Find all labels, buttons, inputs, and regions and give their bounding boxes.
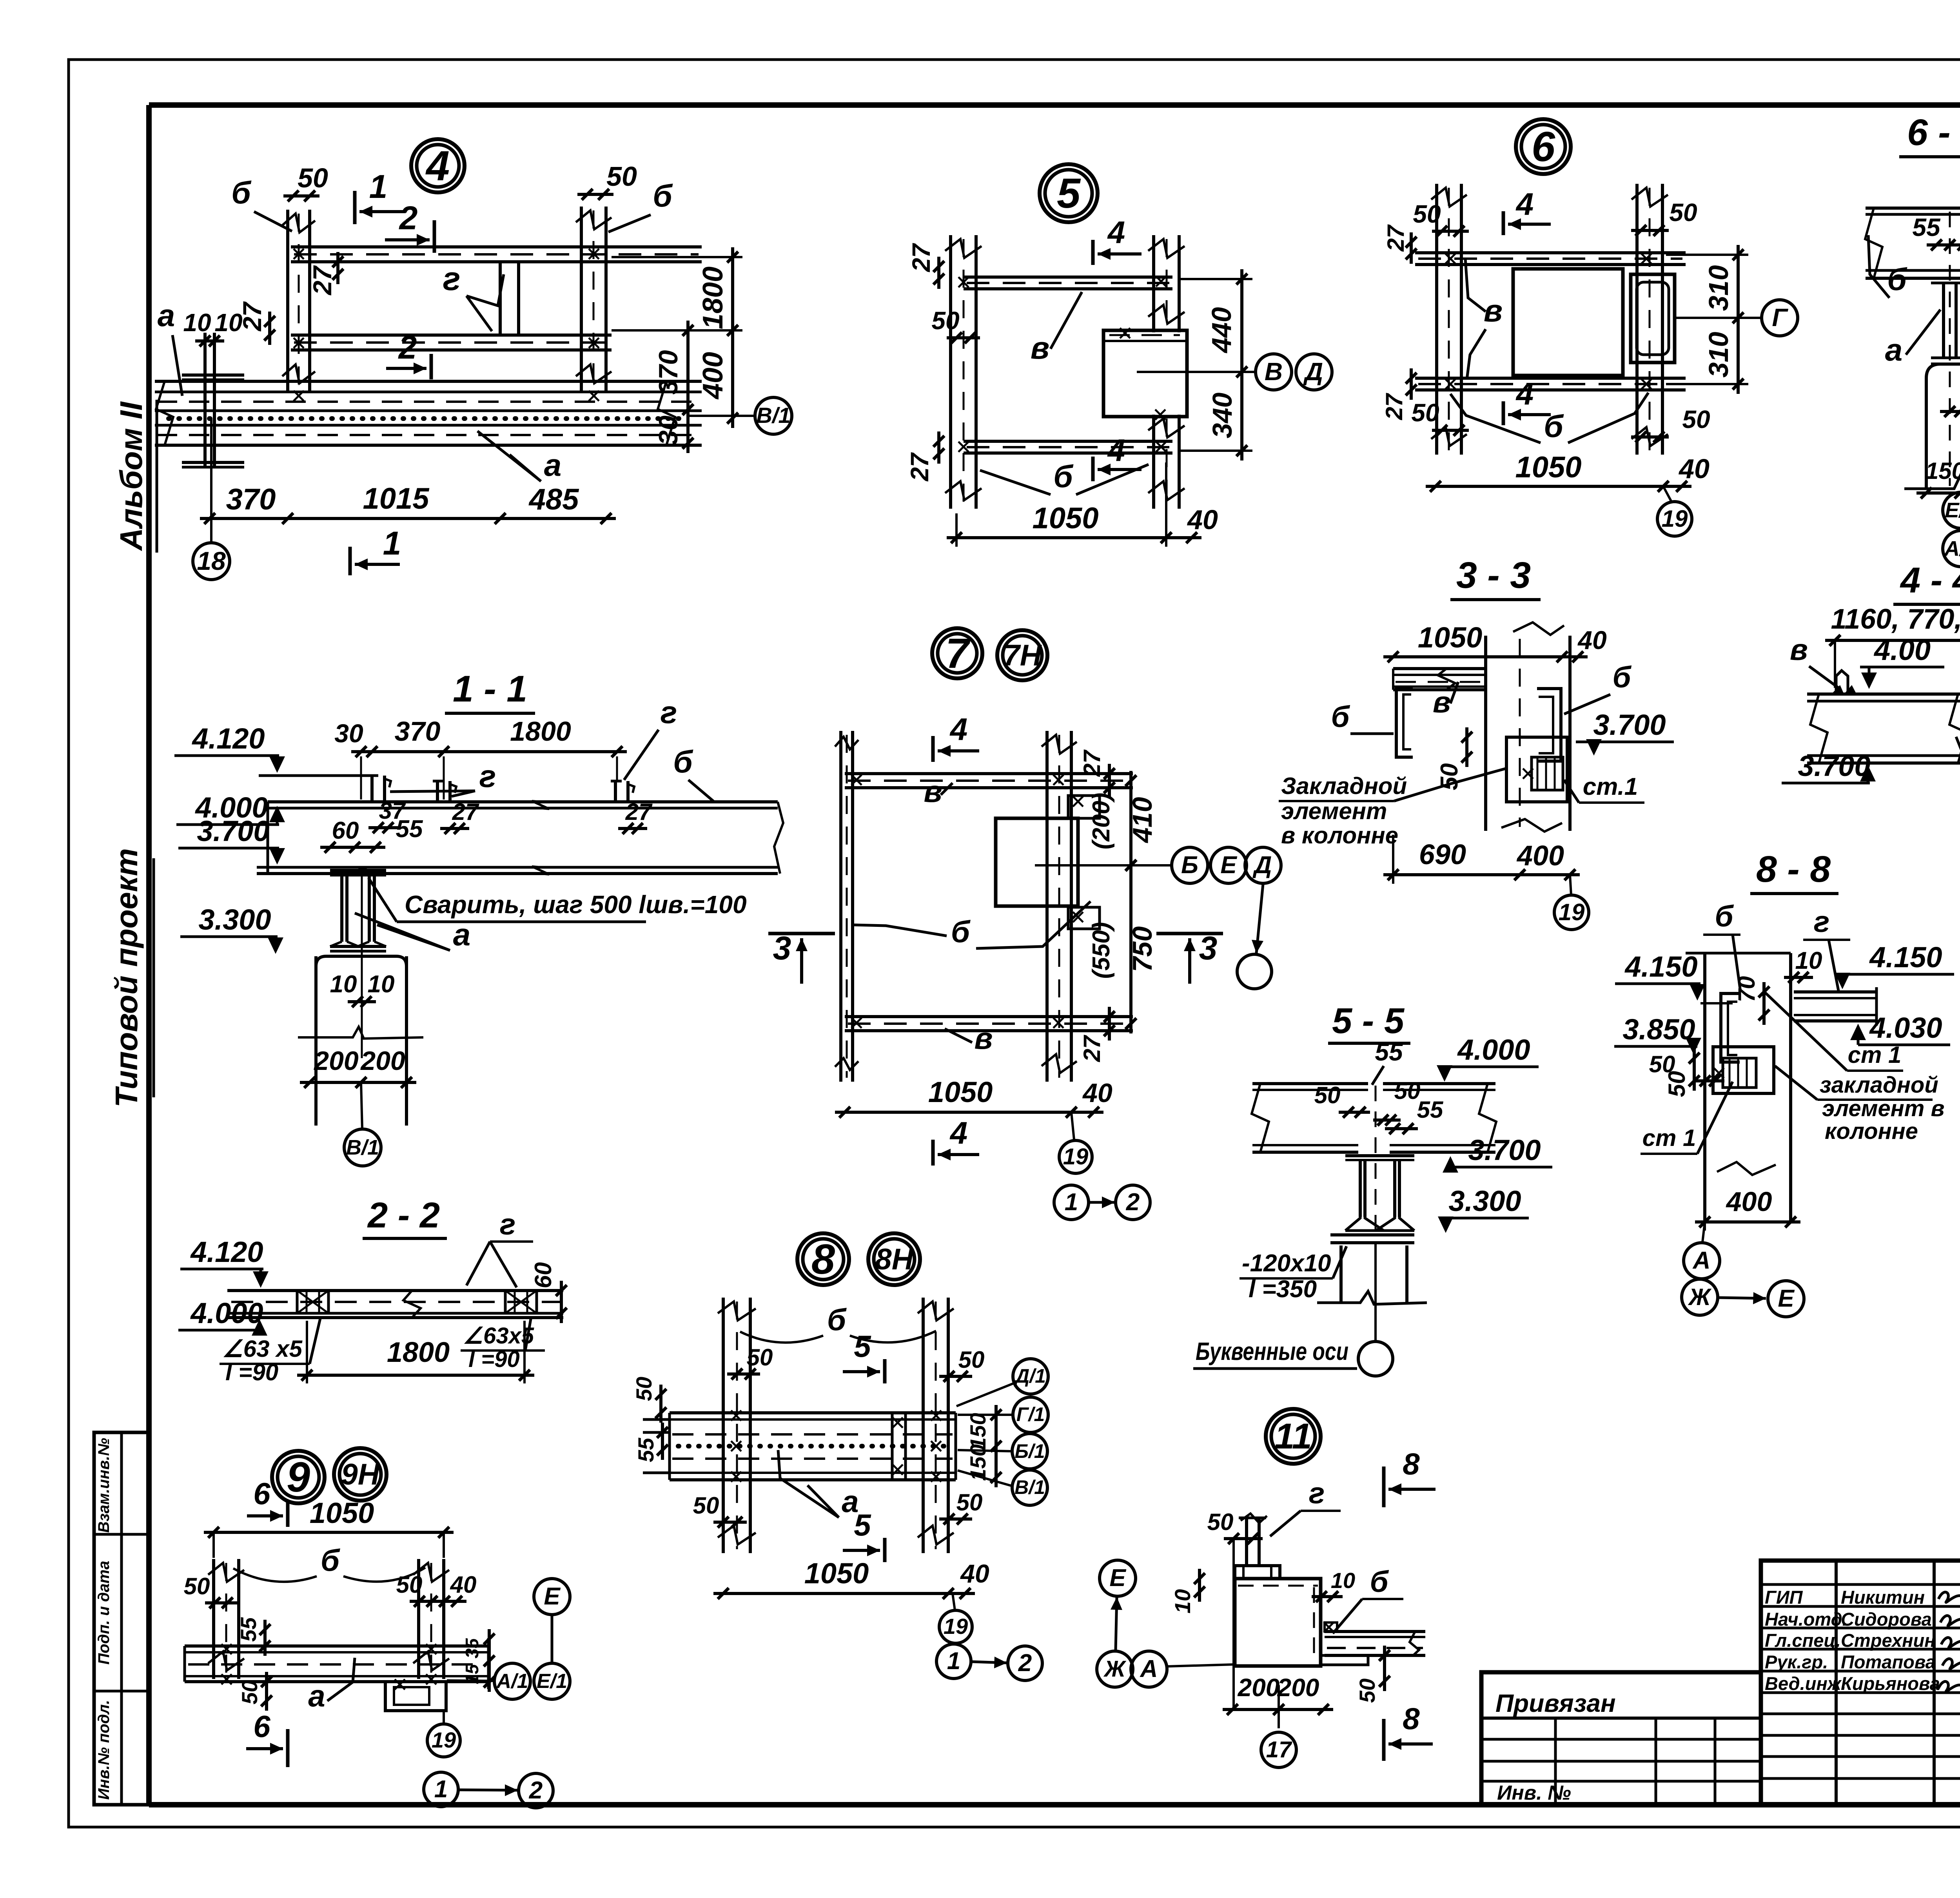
svg-text:27: 27 bbox=[1079, 1035, 1105, 1062]
svg-text:Потапова: Потапова bbox=[1841, 1651, 1936, 1672]
2-2 end rails bbox=[297, 1291, 328, 1313]
node11 section mark 8 top bbox=[1382, 1467, 1386, 1507]
svg-text:Подп. и дата: Подп. и дата bbox=[95, 1561, 113, 1665]
node11 section mark 8 bottom bbox=[1382, 1719, 1386, 1761]
svg-text:Буквенные оси: Буквенные оси bbox=[1196, 1337, 1348, 1365]
svg-text:370: 370 bbox=[226, 483, 276, 516]
node4 section mark 2 bottom bbox=[430, 354, 433, 379]
svg-text:50: 50 bbox=[237, 1680, 262, 1704]
node6 bottom dim 1050 40 bbox=[1426, 485, 1691, 488]
svg-text:4: 4 bbox=[949, 712, 968, 747]
node5 bottom beam bbox=[964, 440, 1172, 443]
svg-text:2 - 2: 2 - 2 bbox=[367, 1195, 440, 1235]
axis circle 1 and 2 node9 bbox=[424, 1772, 458, 1807]
svg-text:Е: Е bbox=[1109, 1564, 1126, 1592]
svg-text:б: б bbox=[231, 175, 252, 210]
svg-text:4.150: 4.150 bbox=[1869, 941, 1942, 973]
5-5 empty axis circle bbox=[1358, 1341, 1393, 1376]
node11 rail bbox=[1245, 1518, 1248, 1566]
svg-text:г: г bbox=[1814, 905, 1830, 939]
axis circle 1 and 2 node7 bbox=[1054, 1185, 1089, 1220]
svg-text:55: 55 bbox=[396, 816, 423, 843]
svg-text:Сидорова: Сидорова bbox=[1841, 1609, 1932, 1630]
axis circle Ж 8-8 bbox=[1682, 1279, 1718, 1315]
svg-text:Вед.инж.: Вед.инж. bbox=[1765, 1673, 1846, 1694]
svg-text:Рук.гр.: Рук.гр. bbox=[1765, 1651, 1828, 1672]
axis circle А/1 6-6 bbox=[1943, 531, 1960, 567]
node11 bottom lip bbox=[1321, 1655, 1368, 1665]
svg-text:б: б bbox=[653, 178, 673, 213]
svg-text:310: 310 bbox=[1703, 265, 1734, 311]
svg-text:1: 1 bbox=[434, 1776, 448, 1803]
svg-text:1050: 1050 bbox=[1418, 621, 1483, 654]
3-3 bottom dim 690 400 bbox=[1383, 873, 1580, 876]
svg-text:4: 4 bbox=[1107, 215, 1125, 250]
svg-text:4.030: 4.030 bbox=[1869, 1012, 1942, 1044]
svg-text:50: 50 bbox=[396, 1572, 423, 1598]
svg-text:В: В bbox=[1265, 357, 1283, 386]
svg-text:11: 11 bbox=[1274, 1416, 1312, 1456]
svg-text:3.300: 3.300 bbox=[1448, 1185, 1521, 1217]
svg-text:27: 27 bbox=[1381, 393, 1407, 420]
svg-text:310: 310 bbox=[1703, 332, 1734, 378]
5-5 base plate bbox=[1330, 1233, 1414, 1236]
svg-text:10: 10 bbox=[1170, 1589, 1195, 1613]
axis circle А/1 node9 bbox=[494, 1663, 530, 1699]
svg-text:60: 60 bbox=[332, 817, 359, 844]
node8 right column bbox=[922, 1298, 925, 1553]
axis circle В/1 node4 bbox=[755, 397, 792, 434]
3-3 right channel б bbox=[1537, 689, 1561, 761]
axis circles Б Е Д node7 bbox=[1172, 847, 1208, 883]
node7 left column bbox=[839, 731, 842, 1082]
node8 left column bbox=[722, 1298, 725, 1553]
svg-text:Инв. №: Инв. № bbox=[1497, 1782, 1571, 1804]
svg-text:a: a bbox=[544, 448, 562, 482]
svg-text:Закладной: Закладной bbox=[1281, 773, 1407, 799]
axis circle А 8-8 bbox=[1684, 1243, 1720, 1279]
svg-text:6: 6 bbox=[1532, 123, 1555, 170]
node7 empty axis circle bbox=[1237, 954, 1272, 989]
node circle 6 bbox=[1516, 119, 1571, 174]
6-6 concrete column bbox=[1926, 364, 1960, 489]
node5 right dim 440 340 bbox=[1240, 269, 1243, 460]
svg-text:7Н: 7Н bbox=[1003, 639, 1042, 672]
svg-text:5: 5 bbox=[854, 1329, 871, 1363]
axis circle Д node5 bbox=[1296, 354, 1332, 390]
node circle 9Н bbox=[334, 1448, 387, 1501]
svg-text:55: 55 bbox=[1375, 1038, 1403, 1066]
svg-text:8 - 8: 8 - 8 bbox=[1756, 848, 1831, 890]
node5 top beam bbox=[964, 276, 1172, 279]
node11 rail bottom flange bbox=[1235, 1566, 1280, 1579]
svg-text:Е: Е bbox=[1220, 852, 1237, 879]
svg-text:19: 19 bbox=[1063, 1144, 1089, 1169]
1-1 rail stubs г on slab bbox=[370, 776, 374, 802]
svg-text:19: 19 bbox=[1662, 506, 1688, 532]
node9 left column bbox=[212, 1559, 215, 1679]
svg-text:150: 150 bbox=[965, 1444, 990, 1481]
svg-text:3.700: 3.700 bbox=[1468, 1134, 1541, 1166]
node4 section mark 1 bottom bbox=[348, 547, 352, 575]
svg-text:б: б bbox=[827, 1302, 847, 1337]
node4 middle beam bbox=[291, 334, 612, 337]
svg-text:Гл.спец.: Гл.спец. bbox=[1765, 1630, 1841, 1651]
svg-text:10: 10 bbox=[214, 308, 242, 337]
svg-text:в: в bbox=[1790, 633, 1808, 667]
node8 right connection bbox=[891, 1413, 894, 1480]
left margin strip boxes bbox=[94, 1432, 149, 1805]
svg-text:50: 50 bbox=[606, 161, 637, 192]
svg-text:Е: Е bbox=[544, 1583, 561, 1610]
node4 section mark 2 top bbox=[433, 220, 436, 253]
svg-text:Привязан: Привязан bbox=[1495, 1689, 1616, 1717]
1-1 slab band bbox=[268, 800, 778, 803]
svg-text:3.700: 3.700 bbox=[197, 815, 269, 847]
axis circle Г/1 node8 bbox=[1013, 1397, 1048, 1432]
axis circle Ж node11 bbox=[1097, 1651, 1133, 1687]
3-3 column band bbox=[1484, 636, 1487, 831]
svg-text:Никитин: Никитин bbox=[1841, 1587, 1925, 1608]
svg-text:Взам.инв.№: Взам.инв.№ bbox=[95, 1438, 113, 1533]
axis circle 19 node7 bbox=[1059, 1140, 1092, 1173]
svg-text:3.700: 3.700 bbox=[1798, 750, 1870, 782]
node7 top beam bbox=[845, 772, 1133, 775]
svg-text:4.00: 4.00 bbox=[1873, 634, 1931, 666]
svg-text:27: 27 bbox=[625, 799, 653, 825]
node4 section mark 1 top bbox=[353, 191, 357, 224]
svg-text:50: 50 bbox=[747, 1344, 773, 1370]
node8 section mark 5 bottom bbox=[883, 1538, 887, 1562]
svg-text:6: 6 bbox=[253, 1476, 270, 1511]
node circle 8Н bbox=[868, 1233, 920, 1285]
svg-text:Типовой проект: Типовой проект bbox=[109, 848, 144, 1107]
node6 welds bbox=[1445, 254, 1455, 264]
svg-text:150: 150 bbox=[965, 1413, 990, 1449]
axis circle В node5 bbox=[1256, 354, 1292, 390]
axis circle Е/1 node9 bbox=[534, 1663, 570, 1699]
svg-text:Д: Д bbox=[1252, 852, 1272, 879]
svg-text:50: 50 bbox=[184, 1573, 210, 1599]
svg-text:50: 50 bbox=[693, 1492, 719, 1519]
node6 right dim 310 310 bbox=[1737, 245, 1740, 394]
svg-text:Нач.отд.: Нач.отд. bbox=[1765, 1609, 1847, 1630]
node circle 9 bbox=[272, 1451, 325, 1503]
svg-text:Б: Б bbox=[1181, 852, 1198, 879]
1-1 weld dot bbox=[358, 866, 367, 876]
svg-text:370: 370 bbox=[653, 350, 683, 395]
svg-text:27: 27 bbox=[1079, 749, 1105, 777]
4-4 beam band bbox=[1807, 692, 1960, 696]
svg-text:(550): (550) bbox=[1088, 922, 1115, 979]
svg-text:4.150: 4.150 bbox=[1624, 950, 1697, 983]
svg-text:Д: Д bbox=[1303, 357, 1323, 386]
svg-text:l =90: l =90 bbox=[468, 1347, 520, 1372]
node9 section mark 6 top bbox=[286, 1502, 290, 1527]
binding table Привязан bbox=[1481, 1672, 1761, 1805]
axis circle 19 node8 bbox=[939, 1610, 972, 1643]
svg-text:55: 55 bbox=[1417, 1097, 1444, 1123]
node7 small bracket bbox=[1068, 796, 1100, 818]
svg-text:1160, 770, 620: 1160, 770, 620 bbox=[1831, 604, 1960, 635]
svg-text:27: 27 bbox=[308, 265, 337, 296]
svg-text:2: 2 bbox=[529, 1777, 543, 1804]
svg-text:1050: 1050 bbox=[1032, 502, 1098, 535]
svg-text:50: 50 bbox=[1207, 1509, 1234, 1535]
node6 section mark 4 top bbox=[1502, 211, 1505, 235]
svg-text:ГИП: ГИП bbox=[1765, 1587, 1803, 1608]
svg-text:4: 4 bbox=[1107, 433, 1125, 468]
node9 section mark 6 bottom bbox=[286, 1729, 290, 1767]
svg-text:в: в bbox=[1484, 293, 1503, 328]
svg-text:б: б bbox=[1612, 661, 1632, 694]
svg-text:485: 485 bbox=[528, 483, 580, 516]
svg-text:б: б bbox=[673, 744, 693, 779]
svg-text:50: 50 bbox=[931, 306, 959, 335]
svg-text:г: г bbox=[479, 759, 496, 794]
svg-text:А: А bbox=[1140, 1655, 1158, 1682]
node8 bottom dim 1050 40 bbox=[713, 1592, 975, 1595]
svg-text:55: 55 bbox=[1912, 213, 1941, 241]
node7 section mark 4 top bbox=[931, 736, 935, 762]
svg-text:340: 340 bbox=[1207, 393, 1238, 439]
node6 opening rect bbox=[1513, 269, 1623, 375]
1-1 twin rail column bbox=[330, 869, 359, 872]
svg-text:Г/1: Г/1 bbox=[1016, 1403, 1045, 1425]
1-1 top dims 30 370 1800 bbox=[351, 750, 627, 753]
svg-text:4.000: 4.000 bbox=[1457, 1033, 1530, 1066]
axis circle Е node9 bbox=[534, 1579, 570, 1615]
svg-text:50: 50 bbox=[632, 1377, 656, 1401]
svg-text:30: 30 bbox=[334, 719, 363, 748]
node8 beam band bbox=[670, 1411, 956, 1414]
svg-text:40: 40 bbox=[450, 1572, 477, 1598]
svg-text:50: 50 bbox=[298, 163, 328, 193]
3-3 slab stub bbox=[1393, 667, 1486, 670]
svg-text:А: А bbox=[1692, 1247, 1711, 1274]
svg-text:400: 400 bbox=[1516, 840, 1564, 872]
node4 right dim 1800 400 bbox=[731, 247, 734, 428]
node circle 7 bbox=[932, 628, 982, 678]
main drawing frame bbox=[149, 102, 1960, 108]
node11 beam right bbox=[1325, 1630, 1425, 1633]
svg-text:3: 3 bbox=[773, 930, 791, 966]
node4 right column bbox=[580, 207, 583, 392]
3-3 left channel bbox=[1396, 687, 1413, 757]
axis circle 19 3-3 bbox=[1554, 895, 1589, 930]
svg-text:г: г bbox=[661, 695, 677, 730]
node5 left column bbox=[949, 235, 952, 509]
svg-text:19: 19 bbox=[944, 1614, 968, 1639]
8-8 channel б bbox=[1721, 993, 1740, 1062]
node7 connection box bbox=[996, 818, 1078, 906]
svg-text:30: 30 bbox=[653, 415, 683, 445]
svg-text:50: 50 bbox=[1411, 399, 1439, 427]
svg-text:8: 8 bbox=[811, 1235, 835, 1283]
svg-text:3 - 3: 3 - 3 bbox=[1456, 555, 1531, 596]
svg-text:А/1: А/1 bbox=[1944, 537, 1960, 560]
svg-text:б: б bbox=[1715, 900, 1734, 933]
node6 right column bbox=[1635, 184, 1639, 455]
svg-text:4: 4 bbox=[1515, 187, 1534, 221]
axis circle Д/1 node8 bbox=[1013, 1359, 1048, 1394]
svg-text:8: 8 bbox=[1403, 1447, 1420, 1481]
node7 bottom dim 1050 40 bbox=[835, 1111, 1103, 1114]
svg-text:55: 55 bbox=[633, 1438, 658, 1462]
svg-text:в: в bbox=[974, 1021, 993, 1055]
axis circle 17 node11 bbox=[1261, 1732, 1296, 1767]
node8 dim 150 150 bbox=[995, 1405, 998, 1487]
5-5 concrete column bbox=[1339, 1245, 1343, 1303]
svg-text:27: 27 bbox=[1383, 224, 1409, 252]
svg-text:г: г bbox=[443, 260, 461, 297]
svg-text:б: б bbox=[951, 914, 971, 949]
svg-text:9: 9 bbox=[287, 1453, 310, 1501]
svg-text:50: 50 bbox=[1394, 1078, 1421, 1104]
svg-text:4 - 4: 4 - 4 bbox=[1900, 560, 1960, 600]
svg-text:б: б bbox=[1544, 409, 1564, 444]
svg-text:закладной: закладной bbox=[1820, 1072, 1938, 1098]
svg-text:4.120: 4.120 bbox=[191, 722, 265, 755]
svg-text:А/1: А/1 bbox=[496, 1670, 528, 1693]
node11 beam hatch square bbox=[1325, 1622, 1337, 1632]
node circle 7Н bbox=[997, 630, 1047, 680]
svg-text:2: 2 bbox=[1018, 1650, 1032, 1677]
svg-text:l =350: l =350 bbox=[1249, 1276, 1317, 1303]
svg-text:4: 4 bbox=[425, 142, 450, 189]
svg-text:Б/1: Б/1 bbox=[1014, 1440, 1045, 1462]
svg-text:10: 10 bbox=[1795, 947, 1822, 974]
4-4 rail clips bbox=[1836, 671, 1848, 694]
node4 bottom dimension 370 1015 485 bbox=[200, 517, 616, 520]
svg-text:400: 400 bbox=[1726, 1186, 1772, 1217]
svg-text:5: 5 bbox=[1057, 169, 1081, 217]
svg-text:60: 60 bbox=[530, 1262, 556, 1289]
svg-text:50: 50 bbox=[958, 1347, 985, 1373]
svg-text:50: 50 bbox=[1355, 1679, 1379, 1703]
svg-text:690: 690 bbox=[1419, 839, 1466, 870]
svg-text:б: б bbox=[1887, 262, 1907, 297]
svg-text:200: 200 bbox=[1277, 1673, 1319, 1702]
svg-text:3.850: 3.850 bbox=[1622, 1013, 1695, 1046]
axis circle 19 node6 bbox=[1657, 502, 1692, 536]
svg-text:400: 400 bbox=[697, 352, 729, 400]
svg-text:Альбом II: Альбом II bbox=[114, 401, 149, 551]
svg-text:1050: 1050 bbox=[928, 1076, 993, 1108]
8-8 right beam bbox=[1794, 990, 1877, 993]
svg-text:1: 1 bbox=[947, 1648, 960, 1675]
svg-text:ст 1: ст 1 bbox=[1642, 1125, 1696, 1151]
svg-text:3: 3 bbox=[1199, 930, 1218, 966]
2-2 beam band bbox=[227, 1289, 563, 1292]
node4 top beam bbox=[291, 245, 702, 248]
node5 right column lower bbox=[1152, 415, 1155, 509]
svg-text:Г: Г bbox=[1772, 303, 1788, 332]
node5 connection box bbox=[1103, 330, 1187, 417]
svg-text:1800: 1800 bbox=[697, 266, 729, 329]
svg-text:19: 19 bbox=[1559, 899, 1585, 925]
svg-text:в: в bbox=[1031, 330, 1049, 365]
node7 right column bbox=[1045, 731, 1049, 1082]
svg-text:200: 200 bbox=[360, 1046, 405, 1076]
svg-text:10: 10 bbox=[1331, 1568, 1355, 1593]
axis circle В/1 node8 bbox=[1012, 1470, 1047, 1505]
svg-text:8: 8 bbox=[1403, 1701, 1420, 1736]
node circle 5 bbox=[1040, 164, 1098, 222]
axis circle Б/1 node8 bbox=[1012, 1434, 1047, 1469]
svg-text:б: б bbox=[1053, 459, 1074, 494]
node8 section mark 5 top bbox=[883, 1359, 887, 1383]
node11 column box bbox=[1235, 1579, 1321, 1666]
svg-text:1: 1 bbox=[1065, 1189, 1078, 1216]
svg-text:(200): (200) bbox=[1088, 793, 1115, 850]
node4 vertical member г bbox=[499, 262, 502, 335]
node4 left stub column a bbox=[203, 333, 207, 466]
5-5 axis line and circle bbox=[1374, 1243, 1377, 1341]
node5 section mark 4 top bbox=[1091, 240, 1095, 265]
svg-text:Ж: Ж bbox=[1103, 1656, 1127, 1682]
axis circle А node11 bbox=[1131, 1651, 1167, 1687]
svg-text:в: в bbox=[924, 774, 942, 809]
svg-text:1: 1 bbox=[383, 525, 401, 562]
svg-text:17: 17 bbox=[1266, 1737, 1292, 1762]
svg-text:a: a bbox=[308, 1679, 325, 1713]
svg-text:40: 40 bbox=[1678, 453, 1710, 484]
node7 section mark 3 left bbox=[768, 932, 835, 935]
svg-text:3.300: 3.300 bbox=[198, 903, 271, 936]
svg-text:70: 70 bbox=[1733, 976, 1760, 1002]
6-6 rail beam bbox=[1931, 277, 1960, 280]
svg-text:1: 1 bbox=[369, 168, 388, 205]
svg-text:10: 10 bbox=[183, 308, 211, 337]
svg-text:27: 27 bbox=[452, 799, 479, 825]
svg-text:410: 410 bbox=[1127, 797, 1158, 844]
svg-text:ст 1: ст 1 bbox=[1848, 1042, 1902, 1068]
svg-text:1050: 1050 bbox=[804, 1557, 869, 1590]
node8 leader lines to axis circles bbox=[958, 1414, 1012, 1416]
svg-text:50: 50 bbox=[1664, 1071, 1690, 1097]
svg-text:∠63 x5: ∠63 x5 bbox=[222, 1336, 303, 1362]
svg-text:10: 10 bbox=[330, 971, 357, 998]
svg-text:5 - 5: 5 - 5 bbox=[1332, 1001, 1405, 1041]
svg-text:1800: 1800 bbox=[510, 716, 571, 747]
svg-text:750: 750 bbox=[1127, 926, 1158, 972]
node6 right connection box bbox=[1631, 274, 1675, 363]
axis circle 18 bbox=[193, 543, 230, 580]
svg-text:2: 2 bbox=[399, 199, 418, 236]
6-6 slab band bbox=[1866, 207, 1960, 210]
svg-text:1015: 1015 bbox=[363, 482, 430, 515]
svg-text:Стрехнин: Стрехнин bbox=[1841, 1630, 1936, 1651]
node7 right dims bbox=[1129, 771, 1132, 1033]
node5 right column upper bbox=[1152, 235, 1155, 332]
node8 left stub lines bbox=[643, 1418, 670, 1421]
node5 welds bbox=[958, 277, 969, 287]
svg-text:a: a bbox=[1885, 332, 1903, 367]
signatures squiggles bbox=[1938, 1592, 1960, 1602]
node5 bottom dim 1050 40 bbox=[947, 536, 1201, 539]
svg-text:Е/1: Е/1 bbox=[537, 1670, 567, 1693]
svg-text:a: a bbox=[453, 917, 471, 952]
svg-text:элемент в: элемент в bbox=[1822, 1096, 1945, 1121]
svg-text:Е/1: Е/1 bbox=[1945, 499, 1960, 522]
svg-text:50: 50 bbox=[1669, 198, 1697, 227]
node4 left column bbox=[286, 210, 289, 392]
svg-text:50: 50 bbox=[1314, 1082, 1341, 1108]
svg-text:4.120: 4.120 bbox=[190, 1236, 263, 1268]
svg-text:г: г bbox=[500, 1208, 516, 1241]
svg-text:1050: 1050 bbox=[310, 1497, 374, 1529]
